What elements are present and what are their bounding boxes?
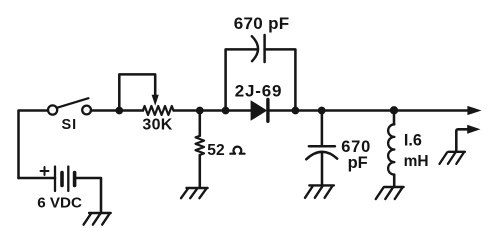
svg-text:I.6: I.6 xyxy=(404,132,422,150)
ground G3 (below shunt cap) xyxy=(305,185,334,197)
junction node C (diode anode / loop left) xyxy=(222,107,230,115)
junction node F (inductor node) xyxy=(390,106,398,114)
svg-text:52: 52 xyxy=(207,142,225,159)
label 52 ohm xyxy=(207,142,244,159)
wire: switch to 30K node xyxy=(91,109,143,112)
wire: diode cathode to output arrow xyxy=(269,109,468,112)
svg-text:670 pF: 670 pF xyxy=(234,14,290,33)
wire: battery positive riser to switch xyxy=(19,111,48,179)
output arrow 1 (main line) xyxy=(467,106,481,115)
svg-text:6 VDC: 6 VDC xyxy=(37,194,82,211)
junction node E (shunt cap node) xyxy=(318,107,326,115)
ground G2 (below 52 ohm) xyxy=(181,188,208,198)
ground G4 (below inductor) xyxy=(376,187,404,199)
diode CR1 2J-69 (tunnel diode) xyxy=(251,100,268,122)
output arrow 2 (reference) xyxy=(467,125,480,134)
svg-text:mH: mH xyxy=(404,153,429,170)
battery B1 6 VDC xyxy=(19,167,102,214)
svg-text:pF: pF xyxy=(348,154,368,172)
wire: 30K to diode anode xyxy=(174,109,251,112)
svg-text:2J-69: 2J-69 xyxy=(235,81,282,100)
wire: output reference from ground G5 xyxy=(456,129,468,152)
inductor L1 1.6 mH xyxy=(388,110,394,187)
ground G1 (below battery) xyxy=(84,213,111,225)
resistor R2 52 ohm xyxy=(196,111,205,187)
svg-text:30K: 30K xyxy=(142,117,172,134)
junction node B (52 ohm node) xyxy=(196,107,204,115)
junction node A (30K left) xyxy=(115,107,123,115)
capacitor C1 670 pF (feedback loop over diode) xyxy=(226,35,296,111)
switch S1 xyxy=(48,98,91,114)
potentiometer R1 30K (rheostat loop and wiper arrow) xyxy=(119,74,173,115)
junction node D (diode cathode / loop right) xyxy=(292,107,300,115)
ground G5 (output reference) xyxy=(440,152,465,164)
capacitor C2 670 pF (shunt) xyxy=(306,111,337,187)
svg-text:SI: SI xyxy=(62,117,78,133)
